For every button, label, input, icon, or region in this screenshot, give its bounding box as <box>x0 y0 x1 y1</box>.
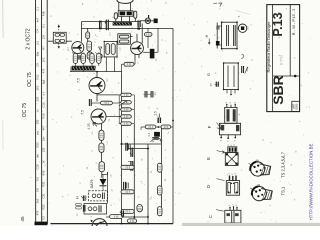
transistor TS7 (OC72) bottom <box>91 219 108 226</box>
wire hatch to rail <box>83 70 85 71</box>
wire T4 down <box>100 124 102 130</box>
svg-text:OC 75: OC 75 <box>22 103 28 118</box>
svg-text:6V8: 6V8 <box>42 170 46 175</box>
svg-text:7.5: 7.5 <box>77 78 81 83</box>
svg-text:a.f: a.f <box>42 92 46 95</box>
wire T3 bottom <box>97 94 119 102</box>
package F lower <box>219 123 240 142</box>
svg-text:2.1: 2.1 <box>36 7 40 11</box>
resistor R-r3 <box>157 207 162 216</box>
resistor R-T4a <box>99 130 104 140</box>
svg-text:OC 75: OC 75 <box>27 72 33 87</box>
resistor R-T3 <box>92 101 119 105</box>
label 7.5 (T4) <box>81 110 85 115</box>
pinout TS 2,3,4,5,6,7 <box>249 160 271 177</box>
svg-text:22K: 22K <box>36 96 40 101</box>
svg-text:12K: 12K <box>42 34 46 39</box>
svg-text:470: 470 <box>42 68 46 73</box>
wire bottom rail <box>51 223 174 225</box>
label OC 75 (b) <box>22 103 28 118</box>
resistor R-tiny1 <box>75 203 81 205</box>
junctions bottom <box>121 216 149 224</box>
svg-text:3.8: 3.8 <box>85 196 88 200</box>
resistor R-tiny2 <box>75 207 81 209</box>
pinout TS 1 <box>250 184 272 201</box>
transistor TS1 (OC44) <box>72 42 84 54</box>
title block frame <box>267 5 300 112</box>
svg-text:R.B: R.B <box>42 12 46 17</box>
label 4.35 <box>87 123 91 129</box>
wire hatch left stub <box>70 67 72 72</box>
junction y148 <box>121 143 150 150</box>
wire speaker down <box>141 23 143 43</box>
svg-text:C28: C28 <box>36 164 40 169</box>
capacitor cluster mid <box>144 91 157 98</box>
svg-text:FB: FB <box>160 139 164 143</box>
label C <box>208 210 224 219</box>
svg-text:R31: R31 <box>42 181 46 186</box>
left edge smudge <box>2 0 5 150</box>
wire gang right leg <box>130 2 132 11</box>
wire top rail <box>82 21 141 23</box>
wire block stubs <box>122 16 130 21</box>
diode small <box>99 47 102 53</box>
resistor Rv3 <box>89 52 95 66</box>
svg-text:TS 2,3,4,5,6,7: TS 2,3,4,5,6,7 <box>281 151 286 177</box>
svg-text:68p: 68p <box>36 51 40 56</box>
resistor Rv2 <box>80 52 86 66</box>
wire T4 mid <box>100 140 102 143</box>
wire left vertical <box>81 22 83 42</box>
wire ladder right <box>131 95 134 124</box>
tiny text T1 <box>66 47 70 51</box>
svg-text:5p6: 5p6 <box>42 79 46 84</box>
svg-text:P.13: P.13 <box>271 12 285 36</box>
resistor R-T2-em <box>122 60 136 74</box>
svg-text:8.2: 8.2 <box>106 78 109 82</box>
label E <box>206 151 225 160</box>
svg-text:SBR: SBR <box>270 75 286 105</box>
bottom gray band <box>182 223 320 226</box>
label H (top) <box>205 34 210 44</box>
wire L1 left <box>48 40 53 42</box>
capacitor under T1 <box>78 55 80 59</box>
svg-text:D: D <box>206 185 211 188</box>
wire y148 <box>128 148 148 150</box>
ferrite rod coil <box>113 22 132 25</box>
wire mid rail <box>70 71 122 73</box>
wire y144 <box>122 143 162 145</box>
svg-text:3.3: 3.3 <box>36 41 40 45</box>
package D <box>226 173 239 196</box>
resistor R-mid <box>97 54 102 59</box>
svg-text:2K2: 2K2 <box>36 85 40 90</box>
label 45 <box>20 216 25 222</box>
svg-text:C9: C9 <box>36 63 40 67</box>
wire T4 last <box>102 172 108 178</box>
svg-text:E: E <box>206 157 211 160</box>
svg-text:1.2: 1.2 <box>106 141 109 145</box>
marks near y144 <box>151 139 164 143</box>
label TS 2,3,4,5,6,7 <box>281 151 286 177</box>
label F <box>207 123 222 130</box>
svg-text:2.2: 2.2 <box>119 47 122 51</box>
resistor R-r2 <box>157 186 162 195</box>
svg-text:R19: R19 <box>42 113 46 118</box>
wire vertical x121 <box>121 74 123 224</box>
arrow T4 <box>93 122 97 126</box>
label OA79 <box>90 180 94 189</box>
IF transformer box C1 <box>89 191 108 201</box>
package E pins <box>228 144 237 153</box>
resistor RL5 <box>121 122 132 125</box>
resistor R-T4b <box>99 143 104 152</box>
IF can G box <box>223 62 239 95</box>
svg-text:4n7: 4n7 <box>36 17 40 22</box>
diode D1 (OA79) <box>100 175 107 191</box>
svg-text:G: G <box>206 73 211 76</box>
capacitor C-x131b <box>128 161 133 171</box>
title text P.13 <box>271 12 285 36</box>
wire vertical x134 <box>133 124 135 219</box>
resistor Rv1 <box>72 52 78 66</box>
label 7.5 (T3) <box>77 78 81 83</box>
resistor R-T1-right2 <box>87 52 92 60</box>
resistor RL2 <box>121 101 132 104</box>
svg-text:25: 25 <box>209 83 213 87</box>
resistor R-mr2 <box>161 125 171 129</box>
wire L1 right <box>66 40 72 42</box>
title URF box <box>292 101 300 111</box>
trimmer G <box>242 66 249 74</box>
wire gang left leg <box>118 2 120 11</box>
resistor R-det3 <box>121 209 134 213</box>
svg-text:R12: R12 <box>36 74 40 79</box>
svg-text:det: det <box>36 154 40 158</box>
wire T4 base <box>106 116 122 118</box>
electrolytic C-mr3 <box>147 132 160 139</box>
svg-text:5592: 5592 <box>295 103 299 109</box>
package F upper <box>225 101 237 123</box>
label 1.5 <box>154 111 158 116</box>
label OC 75 (a) <box>27 72 33 87</box>
resistor R-det1 <box>121 165 134 169</box>
resistor R-det2 <box>121 190 134 194</box>
IF transformer box B <box>118 34 131 44</box>
svg-text:1K: 1K <box>42 160 46 163</box>
label G <box>206 73 211 76</box>
capacitor C-rail-1 <box>99 21 101 30</box>
svg-text:7.5: 7.5 <box>81 110 85 115</box>
svg-text:2n2: 2n2 <box>36 198 40 203</box>
wire T4 low <box>100 152 102 161</box>
capacitor C-rail-2 electrolytic <box>105 20 109 31</box>
svg-text:5.4: 5.4 <box>147 132 151 136</box>
capacitor C-mr <box>158 114 174 124</box>
faint streak <box>236 11 250 15</box>
resistor R-T1-right <box>87 41 92 51</box>
resistor R-mr1 <box>145 125 156 129</box>
tiny text J2 <box>237 15 250 30</box>
title pencil mark <box>280 55 284 65</box>
svg-text:4.35: 4.35 <box>87 123 91 129</box>
svg-text:0.2: 0.2 <box>42 216 46 220</box>
resistor R-det4 <box>110 215 123 219</box>
wire T2 down <box>135 54 139 60</box>
wire T2 stub <box>130 34 137 42</box>
capacitor C-det <box>124 182 129 189</box>
IF coil hatched <box>72 66 96 70</box>
capacitor C-y144 <box>126 143 130 151</box>
svg-text:330: 330 <box>36 119 40 124</box>
resistor R-T2-col <box>145 28 153 48</box>
svg-text:2.7: 2.7 <box>66 47 70 51</box>
svg-text:1n: 1n <box>36 109 40 112</box>
svg-text:0.5: 0.5 <box>36 177 40 181</box>
resistor top-left <box>114 13 117 22</box>
electrolytic black <box>216 26 220 46</box>
svg-text:OA79: OA79 <box>90 180 94 189</box>
resistor R-bot-v <box>137 204 143 211</box>
wire second rail <box>82 27 174 29</box>
resistor RL1 <box>121 93 132 96</box>
wire mr <box>141 126 173 130</box>
svg-text:H: H <box>205 34 209 37</box>
svg-text:45: 45 <box>20 216 25 222</box>
svg-text:C31: C31 <box>42 193 46 198</box>
resistor R-bot-h <box>127 219 136 223</box>
svg-text:150: 150 <box>42 147 46 152</box>
svg-text:4.7: 4.7 <box>109 32 112 36</box>
label 2 x OC72 <box>26 28 32 49</box>
resistor R-T4c <box>99 162 105 172</box>
tiny annotations <box>66 16 167 218</box>
title text Regelateur <box>266 21 271 73</box>
wire ladder left <box>119 95 121 124</box>
svg-text:F: F <box>207 125 212 128</box>
svg-text:HTTP://WWW.RADIOCOLLECTION.BE: HTTP://WWW.RADIOCOLLECTION.BE <box>309 144 314 221</box>
resistor R-r1 <box>157 163 162 172</box>
wire T3 top <box>96 71 98 78</box>
svg-text:C15: C15 <box>42 102 46 107</box>
label D <box>206 179 224 188</box>
svg-text:R33: R33 <box>42 204 46 209</box>
wire lower rail <box>106 216 148 218</box>
svg-text:0.1: 0.1 <box>42 24 46 28</box>
watermark url <box>309 144 314 221</box>
capacitor C-G <box>214 82 218 87</box>
wire vertical x107 <box>107 172 109 204</box>
svg-text:R23: R23 <box>36 142 40 147</box>
wire vertical x148 <box>147 144 149 224</box>
svg-text:TS.1: TS.1 <box>281 186 286 195</box>
volume control block <box>118 11 133 16</box>
capacitor C-85 <box>81 195 88 211</box>
jack J2 <box>237 24 247 32</box>
package E <box>225 153 238 166</box>
svg-text:4K7: 4K7 <box>42 125 46 130</box>
svg-text:1.5: 1.5 <box>154 111 158 116</box>
IF can H box <box>221 21 238 49</box>
title text SBR <box>270 75 286 105</box>
transistor TS2 (OC45) <box>131 42 144 55</box>
svg-text:10n: 10n <box>42 136 46 141</box>
tuning gang arc <box>117 0 133 3</box>
svg-text:3.5: 3.5 <box>246 26 250 30</box>
capacitor C-T3 <box>89 99 91 106</box>
capacitor C-bot <box>120 210 124 216</box>
IF transformer box A <box>104 41 118 72</box>
resistor Rv4 <box>95 52 101 66</box>
label 25 <box>209 83 213 87</box>
svg-text:B 5792: B 5792 <box>280 55 284 65</box>
oscillator coil L1 <box>53 25 66 49</box>
svg-text:2 x OC72: 2 x OC72 <box>26 28 32 49</box>
voltage table <box>35 0 48 225</box>
electrolytic below T2 <box>143 28 158 58</box>
svg-text:5.6: 5.6 <box>36 188 40 192</box>
title text R-W-P13-2 <box>291 8 296 35</box>
capacitor C-x131 <box>130 148 133 157</box>
IF transformer box C2 <box>84 204 107 214</box>
svg-text:R7: R7 <box>42 46 46 50</box>
svg-text:C: C <box>208 215 213 218</box>
handwriting 3 <box>241 55 244 59</box>
wire right vertical <box>172 28 174 223</box>
svg-text:R - W - P13 - 2: R - W - P13 - 2 <box>291 8 296 35</box>
arrow RL2 <box>120 101 127 106</box>
handwriting -7 <box>214 3 224 6</box>
label TS 1 <box>281 186 286 195</box>
resistor RL4 <box>121 115 132 118</box>
resistor RL3 <box>121 108 132 111</box>
resistor R-T1-top <box>86 28 90 41</box>
earphone and plug <box>137 15 157 30</box>
label H (det) <box>76 196 80 199</box>
transistor TS3 (OC45) <box>89 78 105 94</box>
resistor top-right <box>134 11 137 21</box>
svg-text:1K2: 1K2 <box>42 57 46 62</box>
svg-text:osc: osc <box>37 130 40 135</box>
package C <box>225 204 241 225</box>
svg-text:H: H <box>76 196 80 199</box>
transistor TS4 (OC71) <box>91 109 106 124</box>
svg-text:47K: 47K <box>36 210 40 215</box>
wire vertical x161 <box>160 127 162 216</box>
svg-text:C4: C4 <box>36 29 40 33</box>
wire can-H left <box>217 23 221 49</box>
